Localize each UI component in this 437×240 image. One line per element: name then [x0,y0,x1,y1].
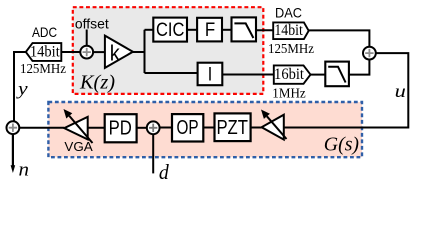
amplifier VGA (points left) [64,109,93,143]
wire: filter 1 to DAC [256,29,273,31]
controller label K(z) [79,72,115,94]
svg-text:OP: OP [176,117,198,139]
digital controller box K(z) gray fill, red dashed border [73,7,263,94]
block CIC [153,18,187,42]
block F [197,18,222,42]
block low-pass filter 1 [232,17,257,41]
DAC converter symbol 16bit [274,65,311,83]
svg-text:F: F [205,20,215,41]
svg-text:PZT: PZT [216,117,248,139]
wire: F to low-pass filter 1 [222,29,232,31]
svg-text:K(z): K(z) [79,72,115,94]
wire: OP to disturbance adder [160,127,172,129]
summing junction S1 (offset adder) [80,46,93,59]
wire: filter 2 up to output adder [349,60,370,75]
wire: amp2 to PZT [251,127,262,129]
wire: adder to gain k [93,51,105,53]
svg-text:VGA: VGA [64,140,93,154]
wire: ADC to offset adder [61,51,80,53]
svg-text:14bit: 14bit [274,22,303,39]
svg-text:k: k [110,41,121,66]
block PD [105,114,137,142]
svg-text:ADC: ADC [32,24,57,40]
svg-text:offset: offset [75,15,109,31]
amplifier 2 (piezo driver triangle, points left) [261,110,287,140]
wire: PZT to OP [203,127,214,129]
wire: VGA to left feedback adder [19,127,64,129]
summing junction S3 (disturbance adder) [147,121,160,134]
wire: noise n input with arrowhead [11,134,16,173]
ADC converter symbol [26,43,62,61]
svg-text:1MHz: 1MHz [272,87,305,102]
svg-text:125MHz: 125MHz [20,62,66,77]
wire: adder to PD [137,127,147,129]
svg-text:y: y [16,79,28,99]
wire: disturbance d input [152,134,154,173]
node d label [159,160,169,184]
block I (integrator) [198,63,223,86]
wire: CIC to F [187,29,197,31]
wire: k to branch split [133,30,145,73]
svg-text:14bit: 14bit [30,43,60,60]
VGA label [64,140,93,154]
node u label [395,81,406,101]
block low-pass filter 2 [325,62,349,87]
svg-text:G(s): G(s) [324,133,360,155]
block OP [172,114,203,141]
wire: 16bit DAC to low-pass filter 2 [311,74,326,76]
summing junction S4 (noise adder, left) [6,121,19,134]
wire: split to CIC [145,29,154,31]
wire: I to 16bit DAC [222,74,273,76]
wire: PD to VGA [88,127,105,129]
wire: split to integrator I [145,72,198,74]
wire: left feedback vertical (y node) into ADC [14,52,26,121]
DAC label [275,4,302,20]
svg-text:16bit: 16bit [274,66,304,83]
svg-text:d: d [159,160,169,184]
ADC label [32,24,57,40]
block PZT [215,113,251,141]
node y label [16,79,28,99]
plant label G(s) [324,133,360,155]
svg-text:125MHz: 125MHz [268,42,314,57]
summing junction S2 (DAC output adder) [363,47,376,60]
svg-text:PD: PD [109,118,132,140]
DAC rate label 125MHz [268,42,314,57]
wire: 14bit DAC to output adder [309,30,370,46]
svg-text:DAC: DAC [275,4,302,20]
wire: offset into adder [86,30,88,46]
offset label [75,15,109,31]
svg-text:I: I [208,64,213,85]
wire: adder to u corner down to plant [284,53,409,127]
DAC converter symbol 14bit [273,22,309,39]
amplifier k (gain triangle) [105,36,133,68]
node n label [19,160,30,181]
svg-text:CIC: CIC [156,20,184,41]
16bit DAC rate label 1MHz [272,87,305,102]
analog plant box G(s) pink fill, blue dashed border [48,102,362,157]
svg-text:n: n [19,160,30,181]
ADC rate label 125MHz [20,62,66,77]
svg-text:u: u [395,81,406,101]
